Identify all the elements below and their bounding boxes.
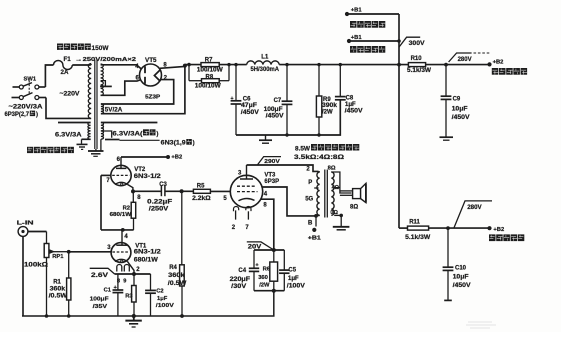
terminal +B2 left channel	[487, 59, 503, 66]
label ~220V/3A	[9, 104, 44, 111]
transformer 6.3V/3A left winding	[55, 123, 91, 144]
pin 6 label	[117, 157, 121, 163]
pin 8 label	[137, 195, 141, 201]
svg-text:+B1: +B1	[308, 236, 322, 242]
VT2 grid return wire	[101, 175, 111, 230]
resistor R5	[192, 183, 211, 201]
svg-text:): )	[193, 141, 195, 147]
svg-text:5H/300mA: 5H/300mA	[251, 67, 280, 73]
svg-text:C1: C1	[104, 287, 112, 293]
svg-text:+B1: +B1	[351, 8, 363, 14]
svg-text:+B2: +B2	[493, 227, 504, 233]
main chassis ground	[88, 149, 104, 156]
VT1 heater	[117, 265, 130, 285]
wire switch to primary bottom	[46, 98, 91, 119]
svg-text:1μF: 1μF	[345, 102, 356, 108]
capacitor C10	[443, 228, 471, 300]
svg-text:360k: 360k	[168, 273, 185, 279]
svg-text:220μF: 220μF	[230, 277, 251, 283]
choke L1	[247, 54, 280, 72]
power tube VT3 6P3P	[230, 165, 262, 211]
label whole-machine ground point	[27, 147, 74, 153]
svg-text:/450V: /450V	[266, 113, 284, 119]
pin 4 label	[135, 64, 139, 70]
resistor R3	[125, 274, 136, 316]
svg-text:680/1W: 680/1W	[110, 212, 132, 218]
transformer 5V/2A winding	[101, 104, 123, 114]
OPT primary winding	[317, 172, 320, 215]
svg-text:+B1: +B1	[351, 35, 363, 41]
label left channel supply (B2)	[492, 68, 527, 75]
VT3 screen wire to OPT bottom	[262, 187, 316, 216]
VT3 labels	[264, 172, 279, 185]
wire node to R7	[185, 64, 201, 66]
svg-text:2.2kΩ: 2.2kΩ	[192, 196, 211, 202]
filter ground symbol	[259, 135, 272, 143]
svg-text:R3: R3	[125, 293, 133, 299]
label power transformer 150W	[57, 44, 109, 52]
svg-text:RP1: RP1	[52, 254, 64, 260]
capacitor C7	[264, 63, 293, 135]
OPT tap 5G label	[305, 196, 313, 202]
svg-text:R9: R9	[323, 97, 331, 103]
svg-text:5G: 5G	[305, 196, 313, 202]
svg-text:6.3V/3A: 6.3V/3A	[55, 131, 82, 138]
HV winding center tap	[100, 81, 112, 87]
label 6P3P(2,7 pin)	[5, 111, 39, 118]
svg-text:47μF: 47μF	[241, 103, 257, 109]
svg-text:390k: 390k	[322, 103, 338, 109]
label left channel supply	[350, 21, 385, 28]
svg-text:R1: R1	[53, 279, 61, 285]
VT3 heater pins 2,7	[232, 210, 250, 231]
svg-text:→250V/200mA×2: →250V/200mA×2	[75, 57, 137, 63]
svg-text:5.1k/3W: 5.1k/3W	[405, 235, 430, 241]
svg-text:/250V: /250V	[149, 206, 169, 212]
B1 feed to R11	[398, 65, 400, 229]
svg-text:8Ω: 8Ω	[350, 205, 358, 211]
svg-text:C5: C5	[288, 267, 296, 273]
VT2 labels	[134, 167, 162, 180]
svg-text:L1: L1	[261, 54, 269, 60]
svg-text:C2: C2	[156, 288, 163, 294]
triode VT1 6N3-1/2	[111, 230, 134, 274]
svg-text:1μF: 1μF	[157, 296, 168, 302]
svg-text:6N3-1/2: 6N3-1/2	[134, 174, 162, 180]
svg-text:+B2: +B2	[171, 154, 182, 160]
svg-text:/450V: /450V	[452, 115, 470, 121]
svg-text:/450V: /450V	[453, 283, 471, 289]
pin 3 label	[238, 170, 242, 176]
5V winding bottom wire to B+ junction	[101, 66, 185, 113]
svg-text:VT3: VT3	[264, 172, 276, 178]
svg-text:280V: 280V	[458, 57, 472, 63]
svg-text:280V: 280V	[467, 204, 482, 211]
svg-text:L-IN: L-IN	[17, 220, 34, 226]
svg-text:/2W: /2W	[322, 110, 333, 116]
VT2 plate wire to +B2	[121, 154, 182, 160]
svg-text:680/1W: 680/1W	[134, 257, 158, 263]
resistor R8 parallel loop	[189, 65, 229, 90]
VT3 plate wire to OPT	[247, 165, 319, 171]
VT1 cathode wire	[115, 272, 151, 276]
svg-text:C9: C9	[453, 96, 461, 102]
node A wire (VT1 plate / R2 bottom / VT2 grid return)	[101, 228, 134, 232]
svg-text:2.6V: 2.6V	[91, 272, 109, 279]
label right channel supply (B2)	[489, 234, 524, 241]
VT1 labels	[134, 243, 162, 263]
OPT title labels	[295, 144, 359, 152]
bus ground symbol	[125, 316, 141, 327]
svg-text:C10: C10	[455, 265, 467, 271]
wire jack to RP1	[28, 231, 47, 233]
resistor R11	[399, 219, 448, 241]
svg-text:): )	[156, 130, 158, 137]
pin 2 label	[164, 75, 168, 81]
svg-text:9: 9	[123, 278, 126, 284]
svg-text:360: 360	[258, 275, 268, 281]
capacitor C1	[90, 274, 124, 316]
svg-text:10μF: 10μF	[453, 274, 469, 280]
label 6N3(1,9 pin)	[161, 139, 195, 147]
rectifier tube VT5 5Z3P	[140, 57, 162, 100]
wire C3 to R5	[165, 189, 193, 193]
label 250V/200mAx2	[75, 57, 137, 63]
label right channel supply	[350, 46, 385, 53]
OPT tap P	[308, 180, 318, 188]
wire RP1 wiper to VT1 grid	[69, 251, 112, 253]
svg-text:VT1: VT1	[135, 243, 147, 249]
svg-text:R4: R4	[169, 265, 177, 271]
resistor R7	[197, 58, 223, 74]
input jack L-IN	[17, 220, 34, 236]
OPT secondary 8ohm wire	[328, 165, 352, 193]
resistor R10	[407, 56, 431, 74]
svg-text:6P3P(2,7: 6P3P(2,7	[5, 112, 30, 118]
svg-text:100μF: 100μF	[264, 107, 283, 113]
svg-text:8Ω: 8Ω	[328, 165, 336, 171]
capacitor C6	[231, 65, 259, 135]
resistor R6	[258, 250, 277, 291]
svg-text:R6: R6	[263, 266, 271, 272]
svg-text:+B2: +B2	[493, 59, 504, 65]
OPT bottom wire / B terminal	[314, 214, 320, 227]
transformer T1 HV secondary 250V winding	[101, 64, 104, 95]
svg-text:6.3V/3A(: 6.3V/3A(	[113, 130, 144, 137]
svg-text:/100V: /100V	[156, 303, 174, 309]
svg-text:290V: 290V	[264, 159, 280, 165]
svg-text:1μF: 1μF	[288, 276, 299, 282]
svg-text:8.5W: 8.5W	[295, 145, 310, 152]
node flag 300V	[399, 37, 426, 47]
svg-text:100/10W: 100/10W	[195, 84, 221, 90]
svg-text:360k: 360k	[50, 286, 66, 292]
transformer T1 primary winding ~220V	[60, 64, 92, 119]
wire heater to 6N3	[120, 139, 160, 141]
node flag 280V (right ch)	[446, 201, 492, 230]
node flag 2.6V	[90, 268, 115, 279]
wire switch to fuse	[45, 65, 53, 87]
svg-text:VT2: VT2	[134, 167, 146, 173]
terminal +B2 right channel	[448, 226, 504, 233]
cathode network bottom wire	[254, 289, 284, 293]
svg-text:5.1k/3W: 5.1k/3W	[407, 68, 431, 74]
svg-text:C8: C8	[346, 95, 354, 101]
pin 8 label	[163, 63, 167, 69]
wire R5 to VT3 grid	[210, 191, 230, 202]
pin 3 label	[107, 245, 111, 251]
svg-text:/30V: /30V	[231, 284, 246, 290]
svg-text:100kΩ: 100kΩ	[24, 262, 48, 269]
svg-text:6P3P: 6P3P	[264, 179, 279, 185]
C10 end bar	[444, 299, 452, 301]
svg-text:5Z3P: 5Z3P	[145, 94, 160, 100]
cathode network top wire	[254, 248, 284, 252]
capacitor C9	[441, 65, 470, 137]
HV winding top wire to VT5 pin 4	[101, 65, 141, 69]
svg-text:F1: F1	[64, 56, 72, 63]
VT3 cathode wire down	[261, 199, 274, 250]
node flag 20V	[247, 242, 274, 251]
svg-text:C4: C4	[238, 268, 246, 274]
svg-text:): )	[36, 112, 38, 118]
svg-text:6N3(1,9: 6N3(1,9	[161, 141, 187, 147]
filter ground bus	[236, 100, 340, 137]
svg-text:VT5: VT5	[145, 57, 157, 64]
node flag 280V (left ch)	[444, 53, 490, 67]
bus junctions	[45, 314, 136, 318]
OPT secondary 0ohm wire to ground	[330, 210, 343, 226]
terminal +B1 left channel	[345, 8, 399, 16]
OPT terminal 2 label	[306, 167, 319, 173]
B+ rail	[279, 64, 408, 66]
(decor)	[466, 322, 496, 328]
node flag 290V	[258, 157, 281, 165]
capacitor C5	[279, 250, 305, 291]
svg-text:R10: R10	[411, 56, 423, 62]
wire R10 to +B2 terminal	[426, 64, 490, 66]
transformer 6.3V/3A right winding (tapped)	[101, 123, 157, 151]
B1 feed wire down	[397, 14, 401, 67]
fuse F1	[54, 56, 73, 76]
OPT secondary winding	[331, 172, 334, 215]
svg-text:/450V: /450V	[241, 110, 259, 116]
potentiometer RP1	[24, 232, 69, 317]
C9 ground	[440, 137, 454, 140]
svg-text:R5: R5	[197, 183, 205, 189]
svg-text:/450V: /450V	[345, 108, 363, 114]
svg-text:0.22μF: 0.22μF	[147, 200, 172, 206]
terminal +B1 right channel	[347, 35, 399, 43]
svg-text:R11: R11	[409, 219, 420, 225]
svg-text:10μF: 10μF	[452, 106, 468, 112]
capacitor C2	[145, 274, 174, 316]
svg-text:/0.5W: /0.5W	[49, 293, 68, 299]
svg-text:~220V: ~220V	[60, 91, 81, 98]
svg-text:C6: C6	[243, 96, 251, 102]
svg-text:~220V/3A: ~220V/3A	[9, 104, 44, 111]
resistor R2	[110, 189, 136, 230]
label 6.3V/3A(tap)	[113, 129, 159, 137]
resistor R9	[316, 63, 337, 135]
triode VT2 6N3-1/2	[111, 157, 133, 191]
svg-text:150W: 150W	[92, 45, 109, 52]
svg-text:6N3-1/2: 6N3-1/2	[134, 250, 162, 256]
ground left heater winding	[77, 144, 88, 149]
OPT secondary 4ohm tap	[332, 185, 340, 191]
pin 6 label	[136, 75, 140, 81]
pin 4 label	[124, 234, 128, 240]
node B+ junction	[183, 63, 191, 68]
capacitor C4	[230, 250, 260, 291]
svg-text:C3: C3	[159, 182, 167, 188]
transformer T1 core	[95, 60, 97, 150]
wire R7 to L1	[219, 63, 247, 66]
svg-text:300V: 300V	[409, 40, 426, 47]
resistor R1	[49, 250, 71, 316]
wire jack shield down	[22, 236, 24, 316]
wire VT2 cathode to C3	[133, 190, 161, 192]
terminal +B1 (OPT B)	[308, 220, 322, 241]
OPT core	[325, 170, 328, 218]
wire fuse to transformer primary top	[72, 64, 91, 66]
svg-text:3.5kΩ:4Ω:8Ω: 3.5kΩ:4Ω:8Ω	[294, 154, 344, 161]
5V winding top wire to VT5 pin 2	[101, 80, 174, 104]
speaker 8ohm	[340, 183, 366, 210]
svg-text:SW1: SW1	[24, 77, 37, 83]
HV winding bottom wire to VT5 pin 6	[101, 80, 141, 96]
svg-text:/100V: /100V	[287, 284, 305, 290]
switch SW1	[12, 77, 47, 100]
svg-text:2A: 2A	[61, 69, 69, 76]
OPT secondary ground symbol	[333, 227, 350, 230]
pin 2 label	[136, 267, 140, 273]
svg-text:B: B	[308, 220, 313, 226]
svg-text:C7: C7	[274, 98, 282, 104]
svg-text:/35V: /35V	[93, 304, 108, 310]
capacitor C8	[335, 63, 363, 115]
capacitor C3	[147, 182, 172, 212]
svg-text:100/10W: 100/10W	[197, 68, 223, 74]
pin 7 label	[106, 178, 110, 184]
svg-text:P: P	[308, 180, 312, 186]
svg-text:/0.5W: /0.5W	[168, 281, 187, 287]
svg-text:5V/2A: 5V/2A	[105, 107, 123, 114]
svg-text:R2: R2	[123, 205, 130, 211]
main ground bus	[22, 291, 274, 316]
svg-text:/2W: /2W	[259, 283, 270, 289]
resistor R4	[168, 191, 187, 318]
svg-text:100μF: 100μF	[90, 296, 110, 302]
wire VT5 pin 8 to B+ node	[160, 66, 185, 68]
